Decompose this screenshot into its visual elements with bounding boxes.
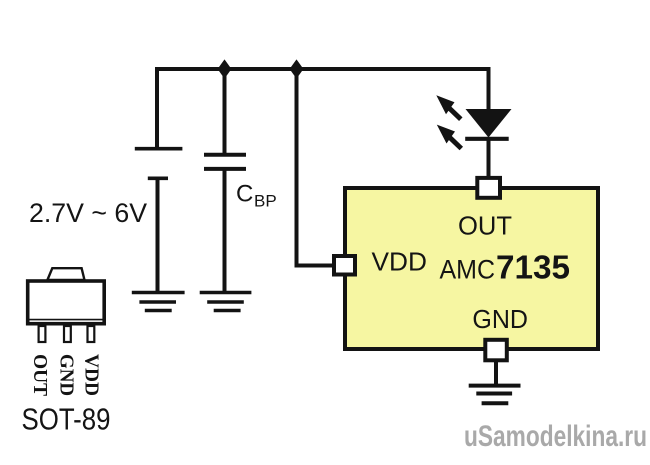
svg-text:GND: GND xyxy=(472,306,528,334)
battery BT1 negative plate xyxy=(148,177,168,181)
pin: GND terminal square xyxy=(485,340,507,361)
SOT-89 package body xyxy=(28,281,105,324)
battery BT1 positive plate xyxy=(135,147,183,151)
pin: VDD terminal square xyxy=(334,256,355,275)
capacitor CBP plates xyxy=(204,153,246,157)
SOT-89 package tab xyxy=(47,268,84,280)
SOT-89 lead 3 xyxy=(88,326,95,342)
wire: LED cathode to OUT pin xyxy=(487,139,491,179)
svg-text:OUT: OUT xyxy=(458,213,512,241)
wire: battery negative to ground xyxy=(156,178,160,292)
svg-text:2.7V ~ 6V: 2.7V ~ 6V xyxy=(29,198,147,228)
LED D1 cathode bar xyxy=(465,137,509,141)
capacitor CBP bottom lead wire xyxy=(223,170,227,293)
label: CBP value xyxy=(236,181,277,211)
SOT-89 lead 2 xyxy=(64,326,71,342)
wire: GND pin to ground xyxy=(494,360,498,386)
svg-text:VDD: VDD xyxy=(81,354,102,396)
svg-text:7135: 7135 xyxy=(496,249,570,286)
svg-text:C: C xyxy=(236,181,253,208)
label: AMC7135 part number xyxy=(440,249,571,286)
ground: IC GND ground symbol xyxy=(469,386,521,404)
node: junction at VDD tap xyxy=(291,62,302,77)
svg-text:SOT-89: SOT-89 xyxy=(22,402,111,437)
ground: battery ground symbol xyxy=(132,293,185,311)
svg-text:OUT: OUT xyxy=(29,354,50,396)
node: junction at capacitor tap xyxy=(219,62,230,77)
svg-text:GND: GND xyxy=(56,354,77,396)
SOT-89 package body inner line xyxy=(28,319,105,321)
capacitor CBP top lead wire xyxy=(223,69,227,154)
svg-text:AMC: AMC xyxy=(440,255,496,285)
svg-text:BP: BP xyxy=(254,192,277,211)
pin: OUT terminal square xyxy=(477,178,500,198)
LED D1 anode triangle xyxy=(466,109,512,138)
wire: VDD tap down and into VDD pin xyxy=(297,69,334,266)
wire: positive supply rail (battery top to LED anode) xyxy=(157,69,489,149)
svg-text:uSamodelkina.ru: uSamodelkina.ru xyxy=(464,420,647,453)
svg-text:VDD: VDD xyxy=(372,247,427,277)
op-amp U1: AMC7135 IC body xyxy=(345,188,598,349)
LED light arrow upper xyxy=(436,95,461,119)
LED light arrow lower xyxy=(437,125,462,149)
ground: capacitor ground symbol xyxy=(200,293,252,311)
SOT-89 lead 1 xyxy=(39,326,46,342)
